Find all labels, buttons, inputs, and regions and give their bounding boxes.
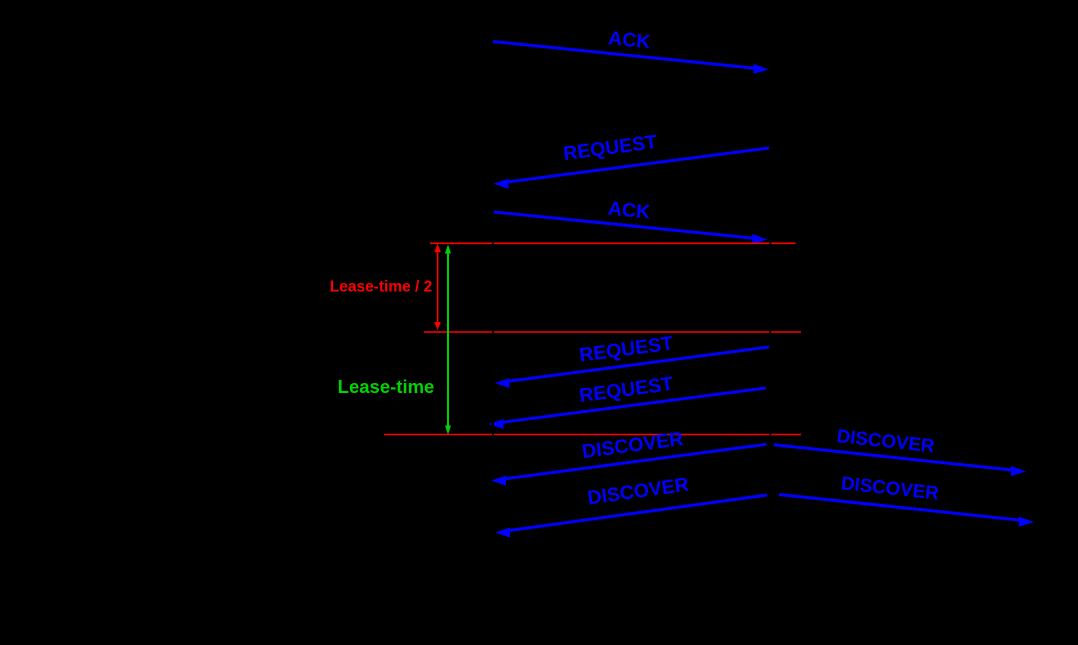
message arrow ACK (top, server to client lifeline, left-to-right) xyxy=(493,42,769,74)
timeline rule 1 (lease granted) xyxy=(430,242,796,244)
message arrow ACK (second, left-to-right) xyxy=(494,212,768,244)
timeline rule 2 (T1 renewal time) xyxy=(424,331,801,333)
message arrow DISCOVER (broadcast right, first) xyxy=(774,445,1026,476)
lifeline client (black, creates gaps over red rules) xyxy=(492,240,494,437)
message arrow DISCOVER (broadcast left, first) xyxy=(491,444,767,485)
timeline rule 3 (lease expiry) xyxy=(384,434,801,436)
svg-text:Lease-time: Lease-time xyxy=(338,376,435,397)
message arrow REQUEST (rebinding, right-to-left) xyxy=(489,388,767,429)
message arrow DISCOVER (broadcast left, second) xyxy=(495,495,767,537)
measurement arrow Lease-time / 2 (red, double-headed vertical) xyxy=(434,244,441,330)
measurement arrow Lease-time (green, double-headed vertical) xyxy=(445,245,451,435)
svg-text:ACK: ACK xyxy=(607,27,651,53)
lifeline server (black, creates gaps over red rules) xyxy=(769,240,771,437)
message arrow REQUEST (renewal, right-to-left) xyxy=(495,347,770,388)
svg-text:ACK: ACK xyxy=(607,198,651,224)
svg-text:Lease-time / 2: Lease-time / 2 xyxy=(330,278,433,295)
message arrow REQUEST (right-to-left) xyxy=(494,148,770,189)
message arrow DISCOVER (broadcast right, second) xyxy=(779,495,1034,527)
